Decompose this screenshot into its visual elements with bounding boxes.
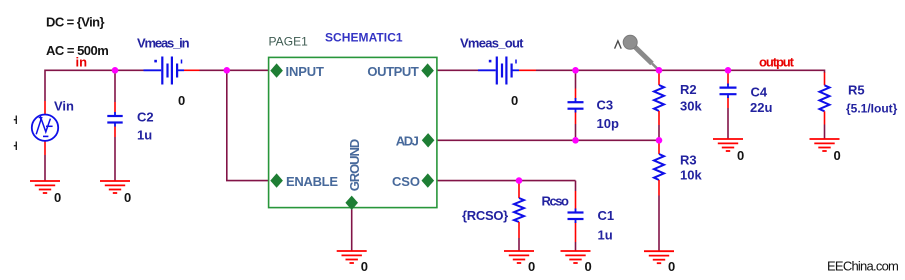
- wire: C3 top stub: [575, 70, 577, 88]
- junction dot at C3 bottom / ADJ: [572, 137, 579, 144]
- wire: C1 bottom to ground: [575, 242, 577, 251]
- wire: Vin bottom to ground: [44, 155, 46, 181]
- wire: main input rail left segment: [45, 69, 144, 71]
- svg-text:1u: 1u: [137, 128, 152, 143]
- wire: output rail Vmeas_out to R5 corner: [536, 69, 825, 71]
- ground 0 at R5: [810, 139, 840, 151]
- svg-text:OUTPUT: OUTPUT: [367, 64, 418, 79]
- wire: R3 bottom to ground: [658, 196, 660, 252]
- wire: C2 top vertical: [114, 70, 116, 102]
- junction dot at C4 top: [725, 67, 732, 74]
- svg-text:R2: R2: [680, 82, 697, 97]
- ground 0 at Rcso: [504, 251, 534, 263]
- junction dot at R2/R3: [656, 137, 663, 144]
- svg-text:ADJ: ADJ: [396, 134, 419, 149]
- capacitor C2: [107, 102, 122, 137]
- svg-text:{5.1/Iout}: {5.1/Iout}: [846, 102, 898, 116]
- ground 0 at R3: [644, 251, 674, 263]
- voltage source Vin: [32, 101, 58, 155]
- svg-text:Vin: Vin: [54, 99, 74, 114]
- wire: R5 top corner stub: [824, 70, 826, 74]
- capacitor C3: [568, 89, 584, 125]
- svg-text:INPUT: INPUT: [286, 64, 325, 79]
- resistor R2: [654, 72, 664, 125]
- svg-text:0: 0: [834, 148, 841, 163]
- hierarchical block SCHEMATIC1: [269, 57, 437, 207]
- svg-text:Rcso: Rcso: [542, 194, 570, 209]
- wire: block GROUND pin to ground: [351, 208, 353, 251]
- voltage source Vmeas_out (0V battery): [478, 57, 536, 85]
- voltage source Vmeas_in (0V battery): [144, 57, 200, 85]
- ground 0 at C1: [561, 251, 591, 263]
- svg-text:0: 0: [124, 190, 131, 205]
- svg-text:EEChina.com: EEChina.com: [827, 259, 899, 274]
- junction dot at R2 top: [656, 67, 663, 74]
- capacitor C4: [720, 72, 737, 108]
- ground 0 at block GROUND: [337, 251, 367, 263]
- resistor R3: [654, 142, 664, 196]
- pin OUTPUT: [367, 63, 434, 79]
- pin ENABLE: [270, 173, 338, 189]
- probe marker: [615, 35, 658, 69]
- wire: left vertical to Vin: [44, 70, 46, 102]
- ground 0 at Vin: [30, 181, 60, 193]
- svg-text:GROUND: GROUND: [347, 139, 362, 192]
- resistor R5: [820, 73, 830, 125]
- junction dot at C3 top: [572, 67, 579, 74]
- wire: output rail block to Vmeas_out: [437, 69, 478, 71]
- svg-text:0: 0: [528, 259, 535, 274]
- wire: C4 bottom to ground: [727, 108, 729, 139]
- svg-text:C2: C2: [137, 110, 154, 125]
- svg-text:ENABLE: ENABLE: [286, 174, 338, 189]
- clipped marker glyph upper left edge: [14, 116, 16, 125]
- junction dot at Rcso / CSO: [516, 177, 523, 184]
- pin ADJ: [396, 133, 435, 148]
- wire: input rail from Vmeas_in to block: [200, 69, 269, 71]
- svg-text:22u: 22u: [750, 100, 772, 115]
- wire: C2 bottom to ground: [114, 137, 116, 181]
- wire: R5 bottom to ground: [824, 125, 826, 140]
- svg-text:0: 0: [54, 190, 61, 205]
- svg-text:SCHEMATIC1: SCHEMATIC1: [325, 31, 403, 45]
- ground 0 at C4: [713, 139, 743, 151]
- svg-text:0: 0: [585, 259, 592, 274]
- svg-text:10p: 10p: [597, 116, 619, 131]
- svg-text:C4: C4: [751, 85, 768, 100]
- pin CSO: [392, 173, 434, 189]
- svg-text:R5: R5: [848, 83, 865, 98]
- pin GROUND: [345, 139, 362, 210]
- junction dot at ENABLE branch: [224, 67, 231, 74]
- wire: ENABLE branch vertical and horizontal: [227, 70, 269, 180]
- svg-text:C3: C3: [597, 98, 614, 113]
- svg-text:CSO: CSO: [392, 174, 420, 189]
- wire: CSO rail: [437, 180, 576, 182]
- wire: ADJ rail: [437, 139, 659, 141]
- resistor Rcso: [514, 182, 524, 238]
- svg-text:0: 0: [361, 259, 368, 274]
- svg-text:Vmeas_in: Vmeas_in: [137, 36, 190, 51]
- svg-text:in: in: [76, 55, 88, 70]
- junction dot at in/C2: [112, 67, 119, 74]
- svg-text:Vmeas_out: Vmeas_out: [460, 36, 524, 51]
- svg-text:10k: 10k: [680, 168, 702, 183]
- capacitor C1: [568, 191, 584, 242]
- svg-text:output: output: [759, 55, 795, 70]
- wire: Rcso bottom to ground: [518, 238, 520, 251]
- svg-text:1u: 1u: [598, 228, 613, 243]
- clipped marker glyph lower left edge: [14, 142, 16, 151]
- ground 0 at C2: [100, 181, 130, 193]
- svg-text:DC = {Vin}: DC = {Vin}: [46, 15, 105, 30]
- svg-text:0: 0: [511, 93, 518, 108]
- svg-text:30k: 30k: [680, 98, 702, 113]
- wire: C3 bottom stub to ADJ rail: [575, 124, 577, 140]
- svg-text:0: 0: [737, 148, 744, 163]
- wire: C1 top corner stub: [575, 181, 577, 191]
- svg-text:PAGE1: PAGE1: [269, 35, 309, 49]
- pin INPUT: [270, 63, 324, 79]
- svg-text:{RCSO}: {RCSO}: [462, 208, 508, 223]
- svg-text:C1: C1: [598, 208, 615, 223]
- wire: R2 bottom stub: [658, 125, 660, 140]
- svg-text:0: 0: [178, 93, 185, 108]
- svg-text:0: 0: [668, 259, 675, 274]
- svg-text:R3: R3: [680, 153, 697, 168]
